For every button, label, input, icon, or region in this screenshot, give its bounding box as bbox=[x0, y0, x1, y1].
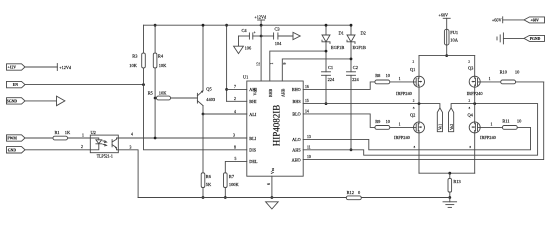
wire R10 to AHO column bbox=[516, 81, 544, 83]
wire bridge top rail bbox=[419, 55, 475, 57]
svg-text:PWM: PWM bbox=[7, 137, 17, 141]
svg-text:R7: R7 bbox=[229, 174, 235, 179]
svg-text:R9: R9 bbox=[375, 119, 381, 124]
svg-text:R12: R12 bbox=[347, 190, 354, 195]
svg-text:D2: D2 bbox=[361, 30, 366, 35]
wire D1 to C1 bbox=[325, 42, 327, 72]
transistor Q2 IRFP240 bbox=[394, 112, 425, 140]
wire +12V port to flag bbox=[25, 66, 57, 68]
optocoupler U2 TLP521-1 bbox=[90, 130, 118, 158]
svg-text:FU1: FU1 bbox=[450, 30, 458, 35]
wire C2 to AHS bbox=[350, 75, 352, 150]
svg-text:+: + bbox=[254, 31, 256, 35]
diode D2 EGF1B bbox=[347, 25, 366, 50]
svg-text:Q5: Q5 bbox=[206, 86, 212, 91]
svg-text:+60V: +60V bbox=[492, 17, 502, 22]
svg-text:TLP521-1: TLP521-1 bbox=[97, 154, 113, 158]
resistor R4 10K bbox=[153, 25, 167, 68]
svg-text:2: 2 bbox=[468, 60, 470, 64]
node BHB D1 junction bbox=[325, 50, 328, 53]
svg-text:DIS: DIS bbox=[249, 148, 256, 153]
wire bridge bottom bbox=[419, 172, 475, 174]
svg-text:R11: R11 bbox=[502, 119, 509, 124]
capacitor C1 224 bbox=[322, 65, 335, 82]
svg-text:2: 2 bbox=[469, 98, 471, 102]
svg-text:R8: R8 bbox=[375, 73, 381, 78]
node R4/R5 junction bbox=[154, 97, 157, 100]
svg-text:+12V: +12V bbox=[8, 66, 17, 70]
node EN/R3 junction bbox=[142, 83, 145, 86]
svg-text:3: 3 bbox=[414, 145, 416, 149]
svg-text:Vo1: Vo1 bbox=[439, 124, 443, 130]
LED inside U2 bbox=[90, 138, 106, 150]
wire EN net bbox=[25, 84, 144, 86]
svg-text:BLO: BLO bbox=[292, 112, 300, 117]
svg-text:10A: 10A bbox=[450, 38, 458, 43]
svg-text:3: 3 bbox=[233, 134, 235, 138]
svg-text:EN: EN bbox=[13, 83, 18, 87]
svg-text:1: 1 bbox=[491, 123, 493, 127]
svg-text:10K: 10K bbox=[159, 91, 167, 96]
svg-text:U2: U2 bbox=[91, 130, 96, 135]
svg-text:224: 224 bbox=[352, 77, 359, 82]
resistor R5 10K bbox=[148, 91, 171, 100]
svg-text:3: 3 bbox=[413, 106, 415, 110]
wire R9 to Q2 gate bbox=[390, 126, 414, 128]
wire R13 to ground bbox=[449, 192, 451, 197]
wire R5 to Q5 base bbox=[171, 97, 198, 99]
svg-text:1: 1 bbox=[82, 133, 84, 137]
svg-text:Q3: Q3 bbox=[468, 65, 474, 70]
resistor R9 10 bbox=[375, 119, 391, 129]
svg-text:ALO: ALO bbox=[292, 137, 301, 142]
svg-text:R10: R10 bbox=[500, 69, 508, 74]
ground arrow under C4 bbox=[234, 36, 244, 54]
svg-text:R3: R3 bbox=[132, 53, 138, 58]
power flag +12Vd top bbox=[254, 14, 267, 25]
svg-text:D1: D1 bbox=[339, 30, 344, 35]
port GND bbox=[7, 147, 26, 153]
wire AHS to phase A path bbox=[303, 104, 537, 156]
phototransistor inside U2 bbox=[112, 138, 118, 150]
svg-text:AHO: AHO bbox=[292, 157, 301, 162]
power flag +12Vd left bbox=[57, 64, 72, 71]
transistor Q1 IRFP240 bbox=[396, 67, 425, 96]
svg-text:BHO: BHO bbox=[292, 87, 301, 92]
svg-text:IRFP240: IRFP240 bbox=[396, 91, 413, 96]
svg-text:IRFP240: IRFP240 bbox=[394, 135, 411, 140]
wire PWM port to R1 bbox=[25, 137, 53, 139]
svg-text:+60V: +60V bbox=[439, 12, 449, 17]
ground PGND earth under R13 bbox=[443, 198, 457, 208]
ground arrow under rail bbox=[266, 202, 279, 209]
wire Q2 source column bbox=[418, 133, 420, 173]
svg-text:Q4: Q4 bbox=[468, 112, 474, 117]
resistor R6 5K bbox=[201, 173, 212, 188]
wire Vss stub to ground rail bbox=[271, 176, 273, 197]
svg-text:R6: R6 bbox=[206, 174, 212, 179]
port +60V bbox=[524, 17, 545, 23]
wire BHO to R8 bbox=[303, 82, 375, 90]
resistor R1 1K bbox=[53, 130, 71, 140]
wire GND port to U2 pin2 bbox=[25, 149, 90, 151]
svg-text:3: 3 bbox=[469, 106, 471, 110]
wire +60V flag to port bbox=[503, 19, 524, 21]
node BHS C1 junction bbox=[325, 102, 328, 105]
wire Q5 collector to ALI node bbox=[202, 106, 204, 114]
wire R1 to U2 pin1 bbox=[68, 137, 91, 139]
wire U2 pin4 to BLI (net PWM2) bbox=[118, 137, 247, 139]
svg-text:11: 11 bbox=[307, 146, 311, 150]
svg-text:BLI: BLI bbox=[249, 136, 256, 141]
svg-text:C2: C2 bbox=[353, 65, 358, 70]
svg-text:+60V: +60V bbox=[531, 18, 540, 22]
svg-text:GND: GND bbox=[8, 148, 17, 152]
resistor R12 0 bbox=[346, 190, 361, 200]
wire +12V top rail bbox=[144, 24, 352, 26]
node R4/BLI junction bbox=[154, 137, 157, 140]
node rail Q5 junction bbox=[202, 24, 205, 27]
node AHS phase A junction bbox=[473, 102, 476, 105]
wire D2 to C2 bbox=[350, 42, 352, 72]
wire SGND port to arrow bbox=[25, 100, 57, 102]
wire ground rail bottom bbox=[138, 197, 346, 199]
svg-text:10K: 10K bbox=[159, 63, 167, 68]
wire R4 column down to BLI bbox=[154, 68, 156, 138]
svg-text:104: 104 bbox=[275, 41, 282, 46]
svg-text:5K: 5K bbox=[206, 182, 212, 187]
wire Vdd stub bbox=[260, 25, 262, 81]
svg-text:14: 14 bbox=[305, 110, 309, 114]
resistor R7 100K bbox=[224, 173, 240, 188]
node rail D2 junction bbox=[350, 24, 353, 27]
diode D1 EGF1B bbox=[322, 25, 344, 50]
svg-text:10K: 10K bbox=[129, 63, 137, 68]
fuse FU1 10A bbox=[444, 29, 458, 45]
wire Q1 drain bbox=[418, 56, 420, 77]
svg-text:1: 1 bbox=[270, 63, 274, 65]
svg-text:10: 10 bbox=[307, 155, 311, 159]
port SGND bbox=[7, 98, 26, 104]
wire AHB stub bbox=[282, 59, 351, 81]
svg-text:R1: R1 bbox=[55, 130, 60, 135]
resistor R3 10K bbox=[129, 25, 145, 68]
node bridge rail junction bbox=[445, 54, 448, 57]
svg-text:2: 2 bbox=[81, 145, 83, 149]
resistor R10 10 bbox=[500, 69, 520, 83]
svg-text:100K: 100K bbox=[229, 182, 240, 187]
wire BHI stub bbox=[227, 100, 247, 102]
svg-text:Vdd: Vdd bbox=[253, 89, 258, 96]
svg-text:C1: C1 bbox=[328, 65, 333, 70]
node rail AHI column junction bbox=[225, 24, 228, 27]
svg-text:C3: C3 bbox=[275, 27, 281, 32]
node R6 rail junction bbox=[202, 196, 205, 199]
node R7 rail junction bbox=[224, 196, 227, 199]
svg-text:4: 4 bbox=[131, 132, 133, 136]
wire AHO to R10 path bbox=[303, 82, 544, 160]
ground PGND earth right bbox=[497, 33, 503, 44]
node C4/Vdd junction bbox=[260, 35, 263, 38]
wire R8 to Q1 gate bbox=[390, 81, 414, 83]
port Vo1 bbox=[437, 108, 442, 132]
svg-text:BHB: BHB bbox=[268, 88, 273, 97]
wire C1 to BHS bbox=[325, 75, 327, 103]
svg-text:Q2: Q2 bbox=[410, 112, 415, 117]
svg-text:AHB: AHB bbox=[280, 88, 285, 97]
resistor R13 bbox=[448, 173, 462, 192]
node rail R4 junction bbox=[154, 24, 157, 27]
node AHI junction bbox=[225, 88, 228, 91]
svg-text:16: 16 bbox=[305, 85, 309, 89]
svg-text:15: 15 bbox=[305, 99, 309, 103]
port EN bbox=[7, 81, 26, 87]
wire phase A column bbox=[474, 87, 476, 122]
svg-text:Q1: Q1 bbox=[410, 67, 415, 72]
svg-text:+12Vd: +12Vd bbox=[59, 65, 72, 70]
wire U2 pin3 down to ground rail bbox=[118, 150, 138, 198]
wire BLO to R9 bbox=[303, 114, 375, 128]
svg-text:5: 5 bbox=[235, 157, 237, 161]
wire Q3 drain bbox=[474, 56, 476, 77]
wire R6 to ground rail bbox=[202, 188, 204, 198]
wire ALI node to IC bbox=[203, 113, 247, 115]
wire Q5 emitter to +12V rail bbox=[202, 25, 204, 91]
svg-text:2: 2 bbox=[234, 97, 236, 101]
port +12V bbox=[7, 64, 26, 70]
op-amp U1 HIP4082IB body bbox=[243, 74, 303, 176]
power flag +60V right bbox=[492, 17, 503, 23]
wire Q3 gate to R10 bbox=[480, 81, 501, 83]
svg-text:U1: U1 bbox=[243, 74, 248, 79]
svg-text:R4: R4 bbox=[158, 53, 164, 58]
svg-text:2: 2 bbox=[413, 60, 415, 64]
transistor Q3 IRFP240 bbox=[467, 65, 484, 96]
ground arrow right of C3 bbox=[293, 32, 300, 39]
transistor Q4 IRFP240 bbox=[468, 112, 497, 140]
svg-text:3: 3 bbox=[130, 146, 132, 150]
wire Q4 source column bbox=[474, 133, 476, 173]
wire BHB stub bbox=[270, 51, 326, 81]
svg-text:HIP4082IB: HIP4082IB bbox=[272, 105, 282, 147]
capacitor C4 106 bbox=[239, 28, 262, 51]
svg-text:C4: C4 bbox=[242, 28, 248, 33]
svg-text:AHS: AHS bbox=[292, 148, 301, 153]
svg-text:IRFP240: IRFP240 bbox=[480, 135, 497, 140]
power flag +60V fuse bbox=[439, 12, 451, 29]
node R13 rail junction bbox=[448, 196, 451, 199]
wire DEL stub bbox=[225, 161, 247, 172]
port PGND bbox=[524, 35, 545, 41]
svg-text:1: 1 bbox=[399, 123, 401, 127]
wire phase B column bbox=[418, 87, 420, 122]
node BHS phase B junction bbox=[418, 102, 421, 105]
svg-text:R13: R13 bbox=[453, 179, 461, 184]
node R13 top junction bbox=[448, 172, 451, 175]
svg-text:4: 4 bbox=[234, 110, 236, 114]
wire R7 to ground rail bbox=[224, 188, 226, 198]
node AHS C2 junction bbox=[350, 148, 353, 151]
capacitor C2 224 bbox=[347, 65, 360, 82]
svg-text:R5: R5 bbox=[148, 91, 154, 96]
wire R3 column down to DIS bbox=[144, 68, 247, 150]
svg-text:7: 7 bbox=[234, 85, 236, 89]
resistor R11 10 bbox=[502, 119, 522, 130]
svg-text:Vss: Vss bbox=[270, 168, 275, 174]
svg-text:ALI: ALI bbox=[249, 112, 257, 117]
ground SGND arrow right bbox=[57, 96, 65, 106]
wire ALI node down to R6 bbox=[202, 114, 204, 173]
node AHB D2 junction bbox=[350, 58, 353, 61]
svg-text:224: 224 bbox=[328, 77, 335, 82]
wire rail R12 to R13 bbox=[361, 197, 450, 199]
wire PGND earth to port bbox=[503, 37, 524, 39]
svg-text:EGF1B: EGF1B bbox=[331, 45, 344, 50]
svg-text:12: 12 bbox=[256, 62, 260, 66]
svg-text:13: 13 bbox=[307, 135, 311, 139]
svg-text:Vo2: Vo2 bbox=[450, 124, 454, 130]
svg-text:1: 1 bbox=[399, 77, 401, 81]
wire ALO to R11 path bbox=[303, 127, 530, 149]
svg-text:1: 1 bbox=[489, 77, 491, 81]
capacitor C3 104 bbox=[261, 27, 293, 46]
svg-text:EGF1B: EGF1B bbox=[353, 45, 366, 50]
node rail C4 junction bbox=[260, 24, 263, 27]
svg-text:2: 2 bbox=[413, 98, 415, 102]
wire BHS to phase B and Vo1 bbox=[303, 104, 440, 108]
node Vss rail junction bbox=[271, 196, 274, 199]
svg-text:+12Vd: +12Vd bbox=[254, 14, 267, 19]
svg-text:6: 6 bbox=[267, 183, 271, 185]
wire AHI stub bbox=[227, 88, 247, 90]
svg-text:8: 8 bbox=[234, 146, 236, 150]
svg-text:BHS: BHS bbox=[293, 99, 302, 104]
svg-text:4403: 4403 bbox=[206, 97, 216, 102]
svg-text:BHI: BHI bbox=[249, 99, 257, 104]
svg-text:DEL: DEL bbox=[249, 159, 258, 164]
node rail D1 junction bbox=[325, 24, 328, 27]
wire Q4 gate to R11 bbox=[480, 126, 502, 128]
svg-text:106: 106 bbox=[245, 45, 252, 50]
svg-text:9: 9 bbox=[283, 63, 287, 65]
transistor Q5 4403 bbox=[197, 86, 215, 105]
wire AHI/BHI pullup column bbox=[226, 25, 228, 101]
resistor R8 10 bbox=[375, 73, 391, 84]
svg-text:SGND: SGND bbox=[7, 99, 18, 103]
node ALI junction bbox=[202, 113, 205, 116]
wire fuse to bridge rail bbox=[446, 45, 448, 56]
port Vo2 bbox=[449, 108, 454, 132]
svg-text:3: 3 bbox=[469, 145, 471, 149]
port PWM bbox=[7, 135, 26, 141]
svg-text:PGND: PGND bbox=[530, 37, 541, 41]
svg-text:1K: 1K bbox=[65, 130, 71, 135]
